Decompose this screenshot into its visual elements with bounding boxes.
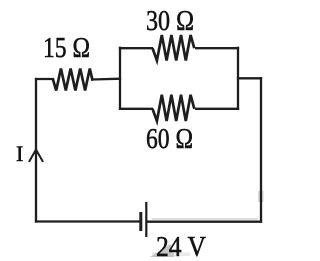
- svg-text:15 Ω: 15 Ω: [43, 32, 90, 64]
- svg-text:24 V: 24 V: [156, 231, 206, 261]
- svg-text:I: I: [16, 141, 23, 166]
- svg-text:60 Ω: 60 Ω: [146, 123, 193, 155]
- svg-text:30 Ω: 30 Ω: [146, 5, 194, 37]
